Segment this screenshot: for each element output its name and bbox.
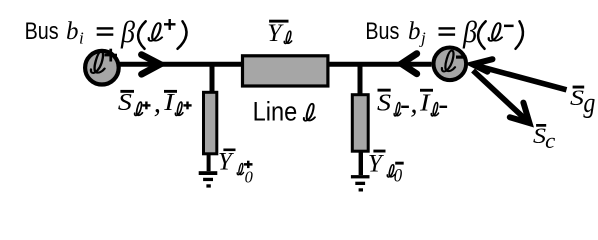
svg-text:i: i	[79, 29, 84, 48]
svg-text:S: S	[377, 91, 391, 117]
svg-text:c: c	[545, 128, 555, 153]
svg-text:Bus: Bus	[25, 18, 59, 45]
svg-text:0: 0	[394, 166, 403, 186]
svg-text:Line: Line	[253, 97, 298, 127]
svg-text:,: ,	[410, 88, 417, 120]
svg-text:0: 0	[245, 168, 254, 187]
svg-text:β: β	[462, 14, 477, 49]
svg-text:b: b	[408, 18, 421, 45]
svg-text:j: j	[419, 29, 426, 48]
svg-text:,: ,	[154, 87, 161, 119]
svg-text:β: β	[120, 14, 135, 49]
svg-text:S: S	[118, 90, 132, 116]
svg-text:I: I	[419, 91, 431, 117]
svg-text:S: S	[570, 85, 584, 110]
svg-text:I: I	[163, 90, 175, 116]
svg-text:Bus: Bus	[365, 18, 399, 45]
svg-text:S: S	[533, 123, 546, 148]
svg-text:b: b	[66, 18, 79, 45]
svg-text:g: g	[583, 87, 595, 119]
